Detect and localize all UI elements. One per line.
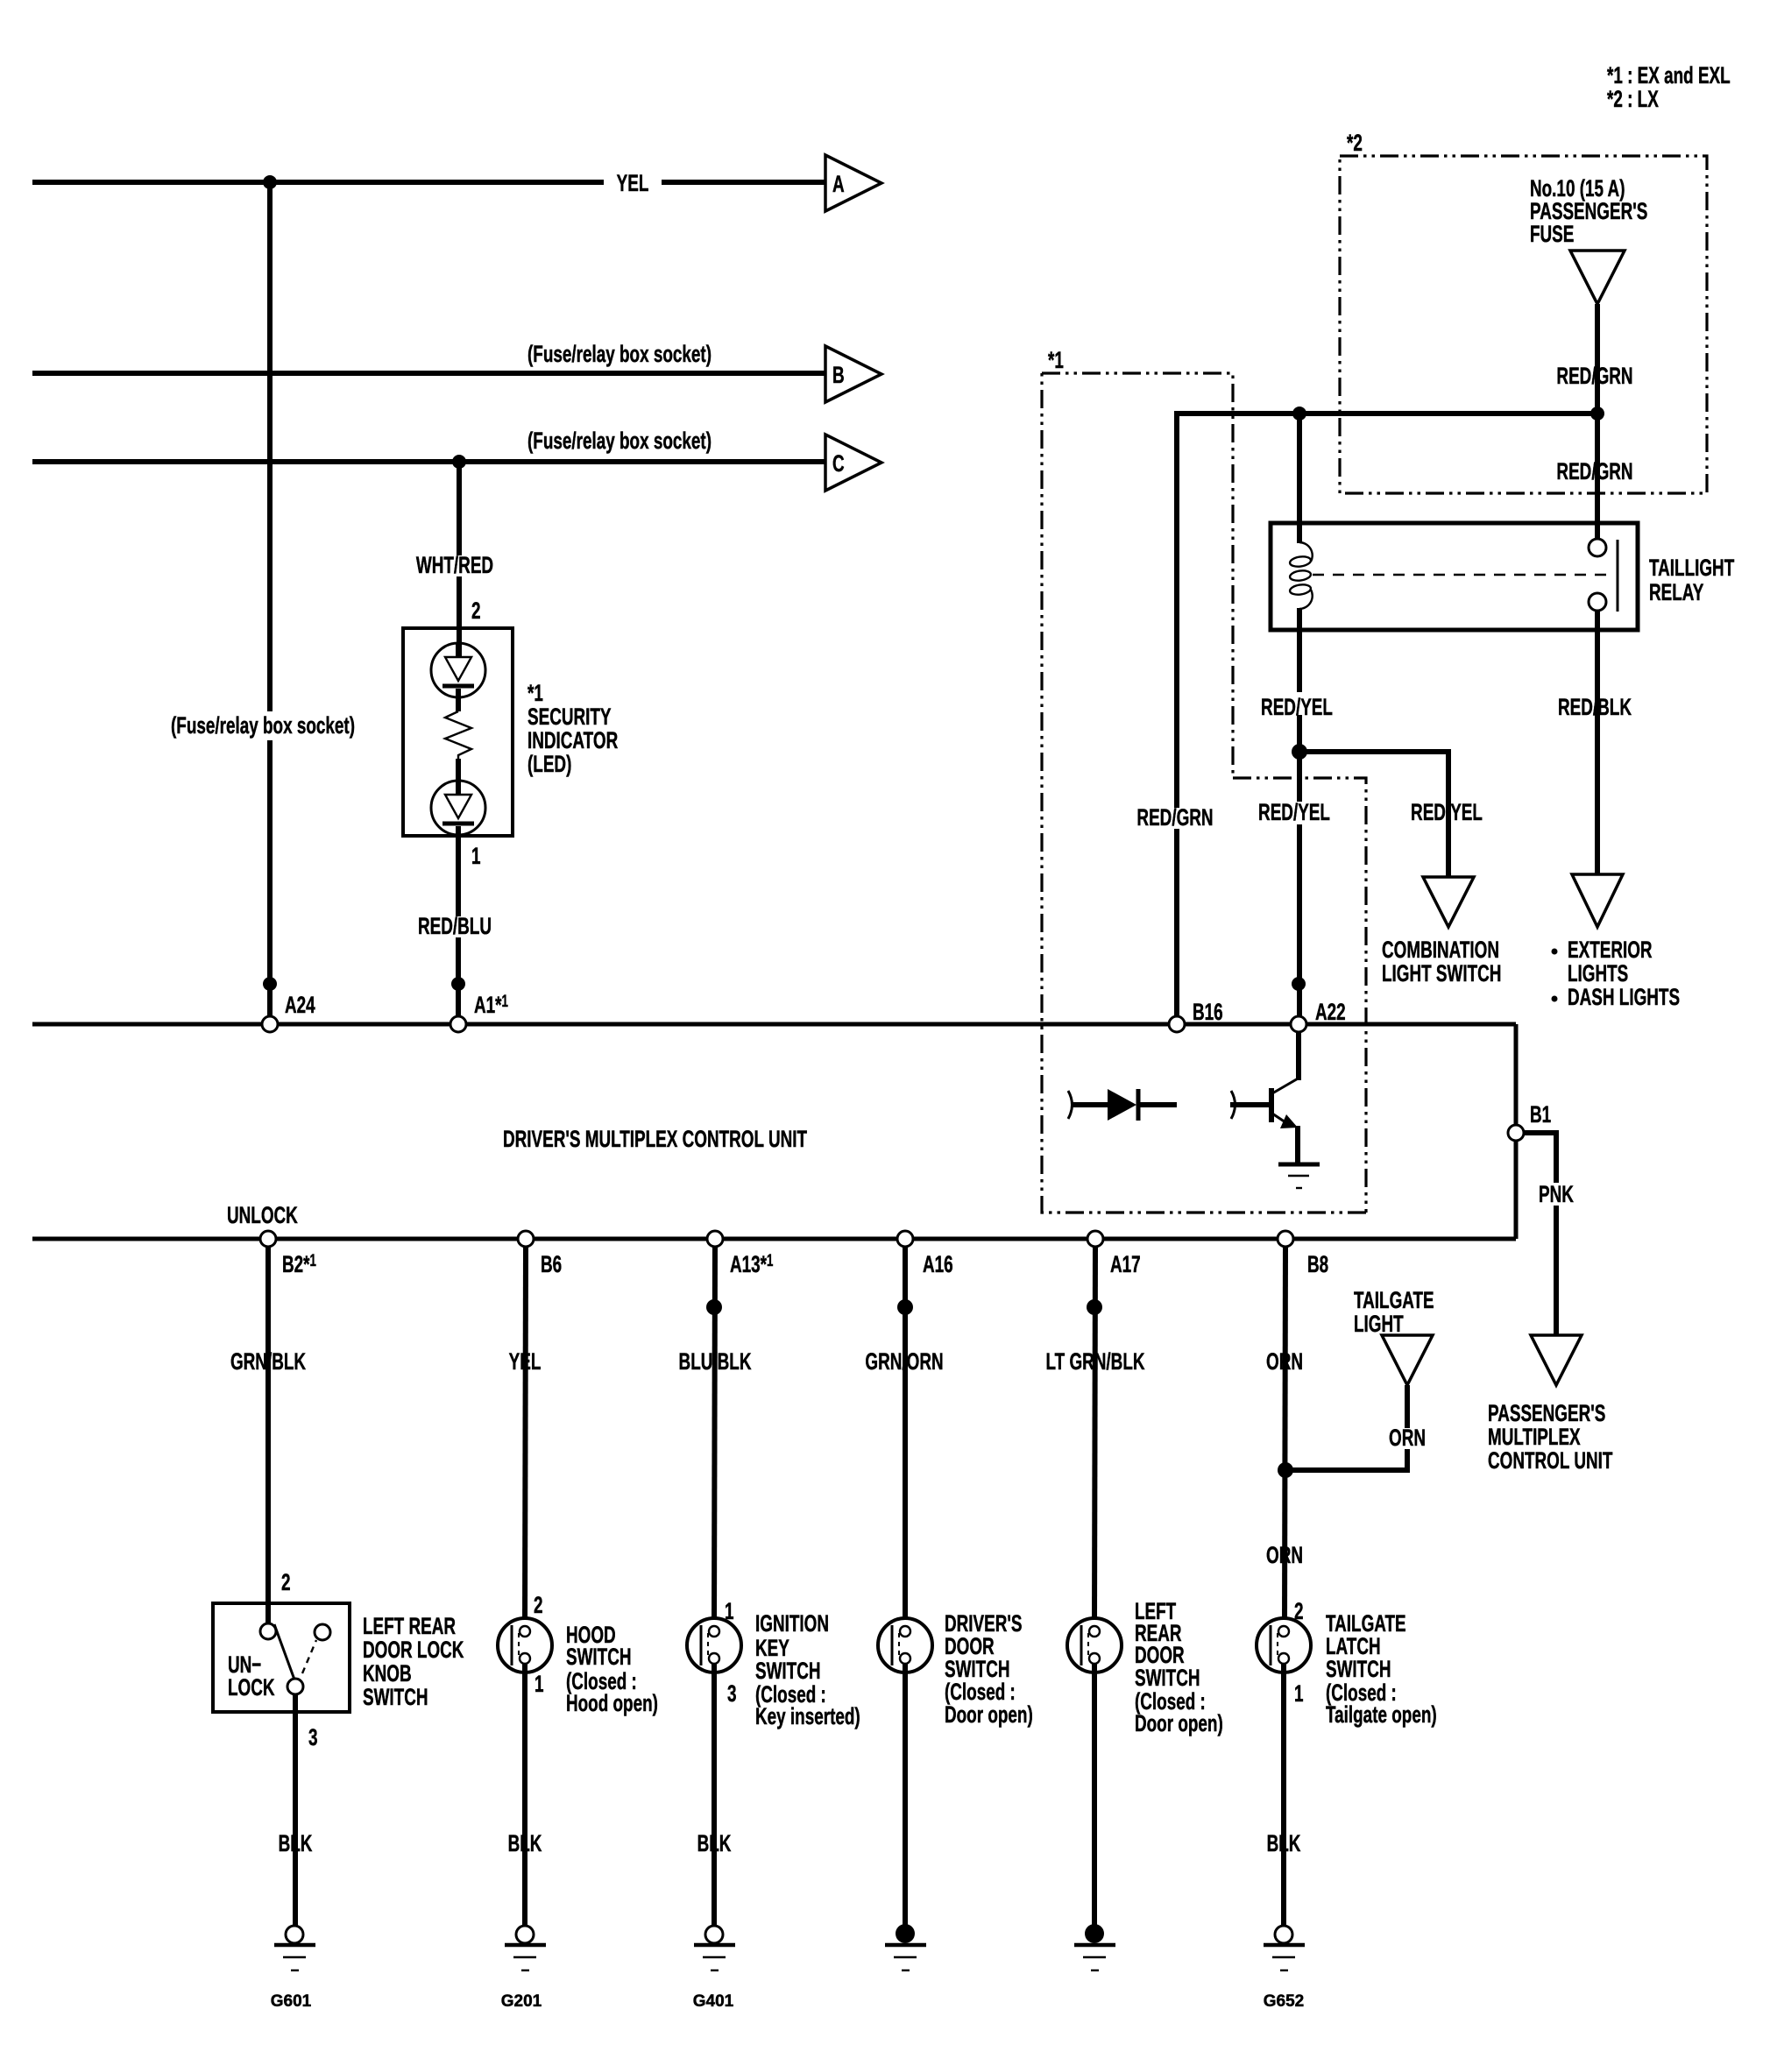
wire LT GRN/BLK A17 column — [1094, 1246, 1095, 1626]
junction node bus C / WHT-RED wire — [452, 455, 466, 469]
label No.10 (15 A) PASSENGER'S FUSE — [1530, 175, 1647, 247]
wire GRN/ORN A16 column — [903, 1246, 908, 1626]
svg-text:BLK: BLK — [697, 1830, 732, 1856]
svg-text:MULTIPLEX: MULTIPLEX — [1488, 1424, 1581, 1450]
wire BLK knob switch to G601 — [293, 1694, 298, 1926]
label EXTERIOR LIGHTS DASH LIGHTS — [1552, 937, 1681, 1010]
connector pin B6 — [518, 1231, 534, 1247]
label RED/GRN on B16 column — [1132, 804, 1220, 831]
junction node bus A / fuse-relay socket wire — [263, 175, 277, 189]
svg-text:COMBINATION: COMBINATION — [1382, 937, 1499, 963]
label LEFT REAR DOOR SWITCH (Closed : Door open) — [1135, 1598, 1223, 1736]
svg-text:RED/GRN: RED/GRN — [1556, 363, 1632, 389]
svg-text:*1 : EX and EXL: *1 : EX and EXL — [1607, 62, 1731, 88]
connector triangle EXTERIOR LIGHTS — [1572, 874, 1623, 927]
svg-text:ORN: ORN — [1389, 1425, 1426, 1451]
driver's multiplex control unit box right edge — [1514, 1024, 1519, 1239]
connector triangle TAILGATE LIGHT — [1382, 1335, 1433, 1385]
svg-text:*2 : LX: *2 : LX — [1607, 86, 1659, 112]
svg-text:UNLOCK: UNLOCK — [227, 1202, 298, 1228]
svg-text:B16: B16 — [1193, 999, 1223, 1025]
driver's door switch — [878, 1618, 932, 1672]
svg-text:PNK: PNK — [1539, 1181, 1574, 1207]
connector triangle PASSENGER'S MULTIPLEX CONTROL UNIT — [1531, 1335, 1582, 1385]
svg-text:LIGHTS: LIGHTS — [1568, 960, 1628, 986]
junction node A17 column — [1087, 1299, 1102, 1315]
taillight relay contact plate — [1617, 540, 1619, 612]
junction node at fuse wire — [1590, 407, 1604, 421]
svg-text:3: 3 — [727, 1680, 737, 1707]
label RED/YEL below junction — [1258, 799, 1339, 825]
driver's multiplex control unit box bottom edge — [32, 1237, 1516, 1241]
diode anode wire — [1073, 1102, 1108, 1107]
body ground (driver's door switch) — [885, 1924, 926, 1970]
connector arrow A — [825, 155, 881, 211]
connector pin B8 — [1278, 1231, 1293, 1247]
connector triangle COMBINATION LIGHT SWITCH — [1423, 877, 1474, 927]
svg-text:RED/YEL: RED/YEL — [1258, 799, 1330, 825]
svg-text:Door open): Door open) — [945, 1701, 1033, 1728]
svg-text:RELAY: RELAY — [1649, 579, 1704, 605]
connector arrow C — [825, 435, 881, 491]
taillight relay box — [1271, 523, 1638, 630]
option box *2 (LX) dash-dot — [1340, 156, 1707, 493]
svg-text:YEL: YEL — [509, 1348, 542, 1375]
svg-text:YEL: YEL — [617, 170, 649, 196]
label TAILGATE LATCH SWITCH (Closed : Tailgate open) — [1326, 1610, 1437, 1728]
wire ORN B8 column — [1285, 1246, 1285, 1626]
fuse connector triangle — [1570, 251, 1625, 304]
svg-text:RED/GRN: RED/GRN — [1556, 458, 1632, 484]
svg-text:SWITCH: SWITCH — [1326, 1656, 1391, 1682]
wire left rear door switch to body ground — [1092, 1664, 1097, 1927]
svg-text:1: 1 — [471, 843, 481, 869]
connector pin B16 — [1169, 1016, 1185, 1032]
knob switch arm — [274, 1624, 294, 1680]
wire BLK ignition switch to G401 — [712, 1664, 717, 1926]
wire A24 column (fuse/relay box socket) — [267, 182, 273, 711]
junction node above A22 — [1292, 977, 1306, 991]
svg-text:(Fuse/relay box socket): (Fuse/relay box socket) — [527, 428, 712, 454]
svg-text:G601: G601 — [271, 1992, 312, 2011]
svg-text:WHT/RED: WHT/RED — [416, 552, 493, 578]
junction node on relay coil feed — [1292, 407, 1306, 421]
label TAILGATE LIGHT — [1354, 1287, 1434, 1337]
connector pin A1 — [450, 1016, 466, 1032]
transistor base input curve — [1231, 1091, 1235, 1119]
wire RED/BLK from relay contact — [1595, 611, 1600, 874]
resistor of security indicator — [445, 711, 471, 759]
svg-text:RED/YEL: RED/YEL — [1261, 694, 1333, 720]
connector pin A17 — [1087, 1231, 1103, 1247]
svg-text:RED/YEL: RED/YEL — [1411, 799, 1483, 825]
label *1 SECURITY INDICATOR (LED) — [527, 680, 618, 777]
svg-text:BLK: BLK — [508, 1830, 542, 1856]
svg-text:PASSENGER'S: PASSENGER'S — [1488, 1400, 1605, 1426]
diode cathode wire to B16 — [1138, 1102, 1177, 1107]
svg-text:2: 2 — [281, 1569, 291, 1595]
wire tap to combination light switch — [1299, 752, 1448, 877]
transistor Q base bar — [1269, 1088, 1274, 1122]
junction node A13 column — [706, 1299, 722, 1315]
transistor base wire — [1230, 1102, 1270, 1107]
svg-text:(Fuse/relay box socket): (Fuse/relay box socket) — [171, 712, 355, 739]
svg-text:BLK: BLK — [279, 1830, 313, 1856]
knob switch contact 2 — [260, 1623, 276, 1639]
security indicator box — [403, 628, 513, 836]
svg-text:ORN: ORN — [1266, 1542, 1303, 1568]
junction node combination light switch tap — [1292, 744, 1307, 760]
connector pin A13 — [707, 1231, 723, 1247]
connector pin B1 — [1508, 1125, 1524, 1141]
svg-text:(Fuse/relay box socket): (Fuse/relay box socket) — [527, 341, 712, 367]
svg-text:CONTROL UNIT: CONTROL UNIT — [1488, 1447, 1612, 1474]
svg-text:Key inserted): Key inserted) — [755, 1703, 860, 1729]
label DRIVER'S DOOR SWITCH (Closed : Door open) — [945, 1610, 1033, 1728]
svg-text:A: A — [832, 171, 845, 197]
svg-text:RED/GRN: RED/GRN — [1136, 804, 1213, 831]
svg-text:A22: A22 — [1315, 999, 1346, 1025]
LED 1 of security indicator — [431, 643, 485, 711]
svg-text:DRIVER'S MULTIPLEX CONTROL UNI: DRIVER'S MULTIPLEX CONTROL UNIT — [503, 1126, 807, 1152]
junction node B8 / tailgate light — [1278, 1462, 1293, 1478]
svg-text:EXTERIOR: EXTERIOR — [1568, 937, 1653, 963]
knob switch common contact 3 — [287, 1679, 303, 1694]
connector arrow B — [825, 346, 881, 402]
wire YEL B6 column — [525, 1246, 526, 1626]
svg-text:C: C — [832, 450, 845, 477]
wire relay coil feed down — [1297, 414, 1302, 543]
svg-text:G201: G201 — [501, 1992, 542, 2011]
transistor emitter with arrow — [1272, 1114, 1298, 1163]
label UN-LOCK — [228, 1651, 275, 1701]
diode input curve — [1068, 1091, 1073, 1119]
connector pin A24 — [262, 1016, 278, 1032]
svg-text:2: 2 — [534, 1592, 543, 1618]
svg-text:DOOR LOCK: DOOR LOCK — [363, 1637, 464, 1663]
svg-text:Hood open): Hood open) — [566, 1690, 658, 1716]
svg-text:G652: G652 — [1264, 1992, 1304, 2011]
label TAILLIGHT RELAY — [1649, 555, 1734, 605]
wire RED/GRN from fuse — [1595, 304, 1600, 548]
label ORN on tailgate light branch — [1384, 1425, 1430, 1451]
svg-text:*1: *1 — [527, 680, 543, 706]
ground G652 — [1264, 1926, 1305, 1970]
wire bus A (YEL) — [32, 180, 604, 185]
driver's multiplex control unit box top edge — [32, 1022, 1516, 1027]
svg-text:TAILGATE: TAILGATE — [1354, 1287, 1434, 1313]
label HOOD SWITCH (Closed : Hood open) — [566, 1622, 658, 1716]
ignition key switch — [687, 1618, 741, 1672]
svg-text:Tailgate open): Tailgate open) — [1326, 1701, 1437, 1728]
svg-text:(LED): (LED) — [527, 751, 571, 777]
svg-text:SWITCH: SWITCH — [1135, 1665, 1200, 1691]
connector pin A22 — [1291, 1016, 1306, 1032]
svg-text:GRN/BLK: GRN/BLK — [230, 1348, 306, 1375]
svg-text:LIGHT SWITCH: LIGHT SWITCH — [1382, 960, 1501, 986]
svg-text:A24: A24 — [285, 992, 315, 1018]
wire BLU/BLK A13 column — [714, 1246, 715, 1626]
svg-text:G401: G401 — [693, 1992, 734, 2011]
svg-text:INDICATOR: INDICATOR — [527, 727, 618, 753]
junction node A24 — [263, 977, 277, 991]
svg-text:*1: *1 — [1048, 347, 1064, 373]
ground G401 — [694, 1926, 735, 1970]
transistor collector — [1272, 1078, 1299, 1093]
svg-text:FUSE: FUSE — [1530, 221, 1574, 247]
label RED/BLU — [412, 913, 499, 939]
label PNK — [1533, 1181, 1579, 1207]
connector pin A16 — [897, 1231, 913, 1247]
svg-text:B1: B1 — [1530, 1101, 1551, 1128]
wire driver's door switch to body ground — [903, 1664, 908, 1927]
knob switch contact right — [315, 1624, 330, 1640]
label RED/YEL above junction — [1258, 692, 1339, 720]
left rear door switch — [1067, 1618, 1122, 1672]
svg-text:B8: B8 — [1307, 1251, 1328, 1277]
wire B1 to PNK arrow — [1524, 1133, 1556, 1335]
LED 2 of security indicator — [431, 759, 485, 836]
svg-text:B6: B6 — [541, 1251, 562, 1277]
wire BLK hood switch to G201 — [522, 1664, 527, 1926]
svg-text:RED/BLK: RED/BLK — [1558, 694, 1632, 720]
svg-text:RED/BLU: RED/BLU — [418, 913, 492, 939]
hood switch — [498, 1618, 552, 1672]
svg-text:3: 3 — [308, 1724, 318, 1750]
wire bus C (fuse/relay box socket) — [32, 459, 825, 464]
svg-text:LEFT REAR: LEFT REAR — [363, 1613, 456, 1639]
taillight relay contact top — [1589, 539, 1606, 556]
svg-text:LOCK: LOCK — [228, 1674, 275, 1701]
label LEFT REAR DOOR LOCK KNOB SWITCH — [363, 1613, 464, 1710]
svg-text:SWITCH: SWITCH — [755, 1658, 821, 1684]
svg-text:SECURITY: SECURITY — [527, 704, 612, 730]
taillight relay contact bottom — [1589, 593, 1606, 611]
svg-text:SWITCH: SWITCH — [566, 1644, 632, 1670]
connector pin B2 — [260, 1231, 276, 1247]
svg-text:GRN/ORN: GRN/ORN — [865, 1348, 943, 1375]
svg-text:1: 1 — [1294, 1680, 1304, 1707]
wire tailgate light to B8 column — [1285, 1385, 1407, 1470]
junction node A1 — [451, 977, 465, 991]
wire WHT/RED from bus C to security indicator — [457, 462, 462, 555]
knob switch dashed arm — [302, 1640, 316, 1673]
svg-text:SWITCH: SWITCH — [363, 1684, 428, 1710]
label PASSENGER'S MULTIPLEX CONTROL UNIT — [1488, 1400, 1612, 1474]
svg-text:KNOB: KNOB — [363, 1660, 412, 1687]
label COMBINATION LIGHT SWITCH — [1382, 937, 1501, 986]
wire RED/BLU from security indicator to A1 — [456, 836, 461, 1016]
junction node A16 column — [897, 1299, 913, 1315]
option box *1 (EX and EXL) dash-dot outline — [1042, 373, 1233, 778]
label IGNITION KEY SWITCH (Closed : Key inserted) — [755, 1610, 860, 1729]
svg-text:ORN: ORN — [1266, 1348, 1303, 1375]
wire relay coil to B16-A22 area (RED/YEL) — [1297, 608, 1302, 1016]
svg-text:A17: A17 — [1110, 1251, 1141, 1277]
svg-text:BLU/BLK: BLU/BLK — [679, 1348, 752, 1375]
body ground (left rear door switch) — [1074, 1924, 1115, 1970]
svg-text:2: 2 — [471, 598, 481, 624]
wire GRN/BLK B2 column — [265, 1246, 271, 1623]
svg-text:*2: *2 — [1347, 130, 1363, 156]
svg-text:BLK: BLK — [1267, 1830, 1301, 1856]
svg-text:TAILLIGHT: TAILLIGHT — [1649, 555, 1734, 581]
label (Fuse/relay box socket) on A24 wire — [168, 711, 358, 740]
ground G601 — [274, 1926, 315, 1970]
svg-text:A16: A16 — [923, 1251, 953, 1277]
svg-text:DASH LIGHTS: DASH LIGHTS — [1568, 984, 1680, 1010]
svg-text:LIGHT: LIGHT — [1354, 1311, 1404, 1337]
diode D — [1108, 1089, 1138, 1121]
wire horizontal feed to B16 column — [1177, 414, 1597, 1016]
ground G201 — [505, 1926, 546, 1970]
left rear door lock knob switch box — [213, 1603, 350, 1712]
svg-text:LT GRN/BLK: LT GRN/BLK — [1046, 1348, 1145, 1375]
wire bus B (fuse/relay box socket) — [32, 371, 825, 376]
taillight relay coil — [1289, 542, 1312, 609]
svg-text:B: B — [832, 362, 845, 388]
svg-text:1: 1 — [535, 1671, 544, 1697]
svg-text:Door open): Door open) — [1135, 1710, 1223, 1736]
wire BLK tailgate latch switch to G652 — [1281, 1664, 1286, 1926]
ground in control unit — [1278, 1164, 1320, 1188]
svg-text:IGNITION: IGNITION — [755, 1610, 829, 1637]
taillight relay actuation dashed link — [1313, 574, 1611, 576]
svg-text:A13*1: A13*1 — [730, 1251, 773, 1277]
tailgate latch switch — [1257, 1618, 1311, 1672]
